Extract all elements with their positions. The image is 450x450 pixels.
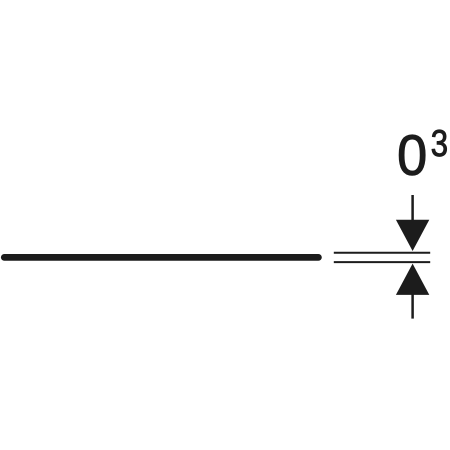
superscript 3 — [432, 130, 447, 157]
arrowhead up — [396, 264, 429, 295]
wall panel (thick horizontal bar) — [4, 254, 318, 261]
arrowhead down — [396, 220, 429, 251]
plate top edge (thin line) — [334, 252, 430, 254]
dimension value 0 — [399, 135, 425, 175]
dimension leader bottom — [411, 293, 414, 319]
plate bottom edge (thin line) — [334, 261, 430, 263]
dimension leader top — [411, 195, 414, 222]
